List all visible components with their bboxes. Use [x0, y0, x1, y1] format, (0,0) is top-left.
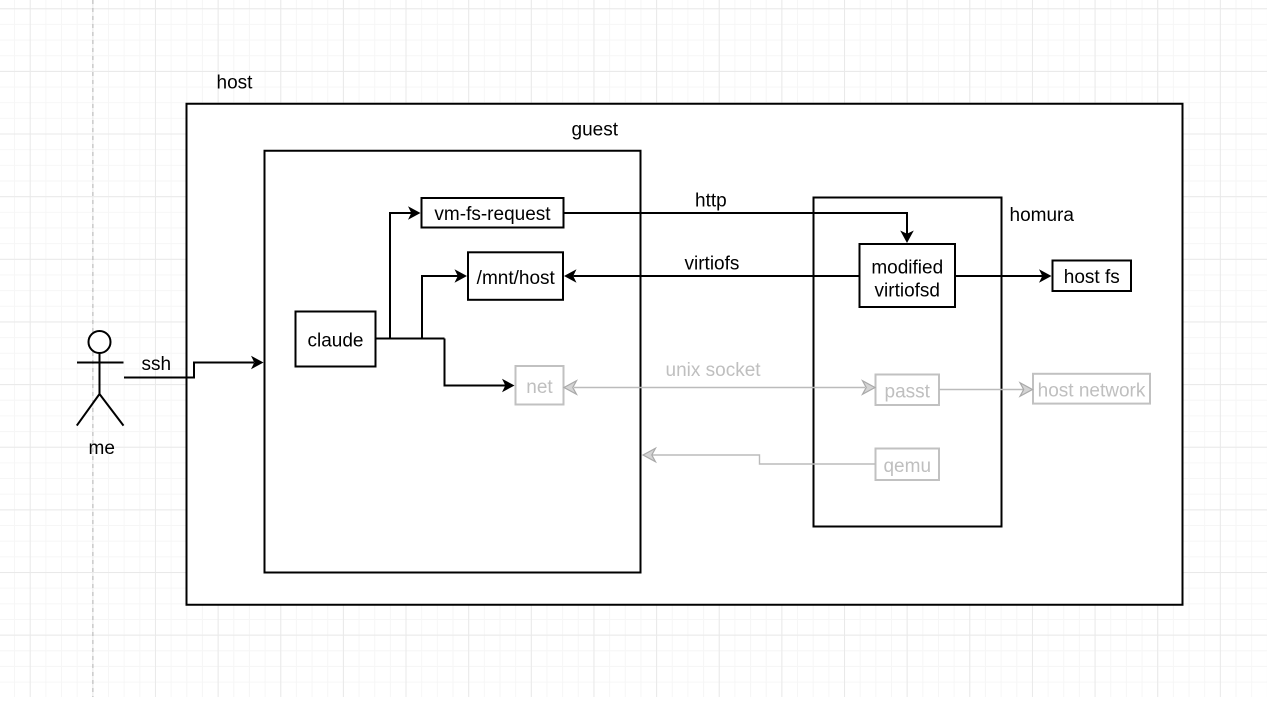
wire qemu to guest (gray) [652, 455, 876, 464]
box qemu (gray) [876, 449, 940, 481]
wire virtiofs: modified virtiofsd to /mnt/host [574, 275, 860, 277]
box passt (gray) [876, 375, 940, 406]
wire claude to net [445, 339, 507, 386]
wire unix socket: net to passt (gray, both arrows) [574, 387, 865, 389]
svg-text:host network: host network [1038, 381, 1146, 402]
wire claude to vm-fs-request [376, 213, 445, 339]
svg-text:qemu: qemu [883, 456, 931, 477]
wire passt to host network (gray) [939, 389, 1023, 391]
svg-text:guest: guest [572, 120, 619, 141]
svg-text:modified: modified [871, 258, 943, 279]
svg-text:vm-fs-request: vm-fs-request [434, 204, 551, 225]
wire http: vm-fs-request to modified virtiofsd [564, 213, 908, 234]
page divider dashed line [92, 0, 94, 697]
box host [187, 104, 1183, 605]
box host network (gray) [1033, 374, 1150, 404]
svg-text:claude: claude [308, 331, 364, 352]
box vm-fs-request [422, 198, 564, 228]
svg-text:virtiofsd: virtiofsd [875, 280, 940, 301]
box host fs [1053, 261, 1132, 292]
svg-text:passt: passt [885, 381, 931, 402]
svg-text:ssh: ssh [142, 354, 172, 375]
box modified virtiofsd [860, 244, 956, 307]
actor me [77, 331, 124, 426]
svg-text:me: me [89, 438, 115, 459]
svg-text:host fs: host fs [1064, 267, 1120, 288]
svg-text:unix socket: unix socket [666, 360, 762, 381]
box claude [296, 312, 376, 367]
svg-text:host: host [217, 73, 254, 94]
wire claude to /mnt/host [422, 276, 458, 339]
box guest [265, 151, 641, 573]
box /mnt/host [468, 252, 563, 299]
box homura [814, 198, 1002, 527]
wire ssh arrow [124, 363, 254, 378]
svg-text:http: http [695, 191, 727, 212]
svg-text:virtiofs: virtiofs [685, 254, 740, 275]
box net (gray) [516, 366, 564, 405]
svg-text:homura: homura [1010, 205, 1075, 226]
svg-text:/mnt/host: /mnt/host [477, 268, 556, 289]
wire modified virtiofsd to host fs [955, 275, 1043, 277]
svg-text:net: net [526, 377, 553, 398]
